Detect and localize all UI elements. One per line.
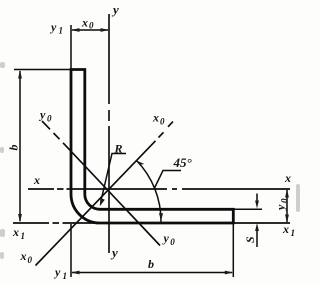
svg-text:x: x: [152, 111, 159, 125]
45 leader: [155, 171, 182, 189]
dimension b left: [19, 71, 21, 221]
angle profile outline: [71, 70, 233, 224]
dimension b bottom: [72, 272, 232, 274]
svg-text:0: 0: [279, 198, 289, 203]
extension line top (y1): [70, 25, 72, 70]
y0 axis diagonal: [42, 121, 160, 246]
svg-text:x: x: [33, 173, 40, 187]
svg-text:1: 1: [291, 228, 296, 238]
scan edge artifacts: [0, 62, 300, 259]
svg-text:x: x: [12, 225, 19, 239]
svg-text:y: y: [49, 20, 57, 34]
R leader: [101, 154, 126, 202]
svg-text:x: x: [282, 222, 289, 236]
svg-text:y: y: [38, 108, 46, 122]
svg-text:0: 0: [160, 117, 165, 127]
45 arc arrow top: [136, 158, 144, 167]
svg-text:y: y: [53, 265, 61, 279]
svg-text:0: 0: [28, 255, 33, 265]
45 degree arc: [137, 161, 162, 223]
svg-text:y: y: [111, 2, 119, 17]
y axis: [108, 14, 110, 253]
svg-text:S: S: [243, 236, 257, 243]
svg-text:1: 1: [59, 26, 64, 36]
svg-text:y: y: [110, 245, 118, 260]
svg-text:1: 1: [21, 231, 26, 241]
extension line right for S: [233, 208, 262, 210]
svg-text:0: 0: [89, 20, 94, 30]
svg-text:y: y: [274, 204, 288, 212]
svg-text:0: 0: [170, 237, 175, 247]
extension line bottom right for b: [232, 224, 234, 277]
x1 axis: [13, 222, 290, 224]
svg-text:1: 1: [63, 271, 68, 281]
svg-text:x: x: [20, 249, 27, 263]
svg-text:45°: 45°: [173, 155, 193, 170]
svg-text:x: x: [81, 16, 88, 30]
svg-text:0: 0: [47, 114, 52, 124]
x0 axis diagonal: [36, 122, 174, 266]
svg-text:R: R: [114, 142, 123, 156]
45 arc arrow bottom: [159, 213, 163, 221]
x axis: [28, 188, 290, 190]
label y0 right (rotated): [274, 198, 290, 212]
svg-text:y: y: [162, 231, 170, 245]
svg-text:b: b: [7, 145, 21, 151]
dimension S arrows: [256, 194, 258, 248]
dimension y0 right: [286, 190, 288, 222]
extension line top edge left for b: [14, 69, 71, 71]
svg-text:b: b: [148, 257, 154, 271]
extension line bottom left for b: [70, 224, 72, 277]
svg-text:x: x: [284, 171, 291, 185]
dimension x0 top: [72, 29, 108, 31]
